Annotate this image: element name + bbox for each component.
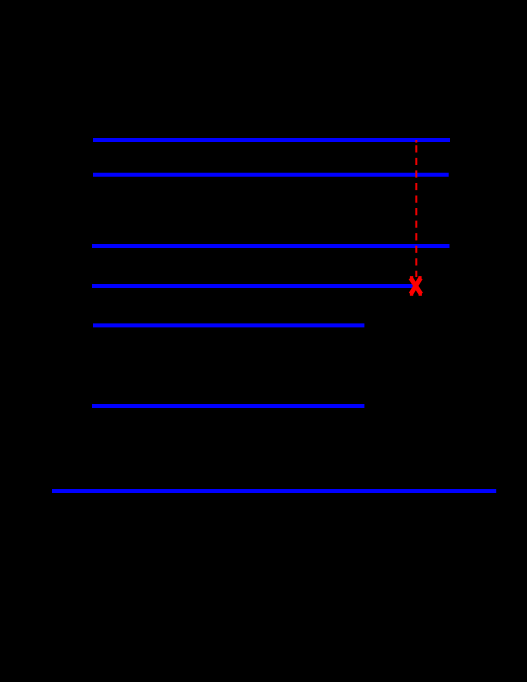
timeline bar 3	[92, 244, 450, 248]
timeline bar 2	[93, 173, 449, 177]
red X marker	[410, 277, 422, 294]
red dashed vertical reference line	[415, 140, 417, 143]
timeline bar 7	[52, 489, 496, 493]
timeline bar 6	[92, 404, 364, 408]
timeline bar 1	[93, 138, 450, 142]
timeline bar 5	[93, 323, 364, 327]
timeline bar 4	[92, 284, 414, 288]
